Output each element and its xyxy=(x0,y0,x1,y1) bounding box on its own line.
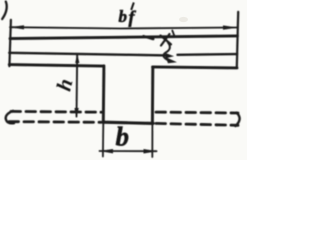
svg-text:b: b xyxy=(116,122,130,152)
figure label a) paren xyxy=(2,2,7,20)
faint scan smudge xyxy=(179,17,188,22)
flange middle line right part xyxy=(178,53,238,56)
dashed slab line lower left xyxy=(9,120,101,124)
dashed slab line lower right xyxy=(156,123,238,125)
extension line left of b dimension xyxy=(102,123,104,157)
arrowhead right of b dimension xyxy=(144,149,158,154)
extension line right (and flange right edge) xyxy=(237,12,238,68)
dimension line b'f xyxy=(10,27,237,28)
arrow end of middle line xyxy=(166,53,175,58)
arrowhead left of b dimension xyxy=(99,149,113,153)
arrowhead right of b'f dimension xyxy=(223,25,238,29)
dimension line h vertical xyxy=(76,55,79,117)
paper background xyxy=(0,0,247,160)
arrowhead top of h dimension xyxy=(75,54,79,63)
svg-text:b: b xyxy=(119,7,128,26)
flange bottom line left part xyxy=(9,65,103,67)
web left edge xyxy=(102,66,105,123)
web right edge xyxy=(151,67,154,124)
extension line left (and flange left edge) xyxy=(9,20,11,66)
arrowhead bottom of h dimension xyxy=(74,108,78,117)
label h'f prime tick xyxy=(172,31,174,37)
leader arrowhead of h'f xyxy=(166,57,178,63)
label h'f letter stroke 1 xyxy=(161,36,172,45)
web bottom edge xyxy=(103,122,153,123)
flange bottom line right part xyxy=(153,67,237,68)
extension line right of b dimension xyxy=(151,123,153,157)
flange top line xyxy=(10,36,237,39)
label prime of b'f xyxy=(131,3,134,11)
dashed slab line upper right xyxy=(156,111,238,115)
arrowhead left of b'f dimension xyxy=(10,25,25,29)
slab end cap right xyxy=(236,113,240,126)
slab end cap left xyxy=(6,111,14,123)
dashed slab line upper left xyxy=(11,110,101,114)
label h'f dash stroke xyxy=(144,36,154,39)
label h'f letter stroke 2 xyxy=(161,34,170,46)
dimension line b xyxy=(100,150,157,152)
leader squiggle of h'f xyxy=(163,43,169,60)
flange middle line left part xyxy=(9,53,167,56)
